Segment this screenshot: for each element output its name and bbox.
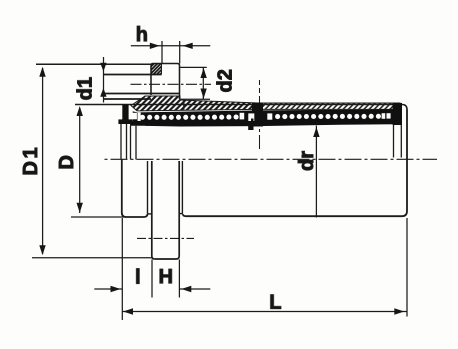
svg-text:l: l bbox=[135, 267, 141, 289]
bolt hole top extension line bbox=[36, 63, 151, 65]
white seal notches left bbox=[132, 113, 141, 122]
separator black patch bbox=[252, 103, 263, 127]
body right edge bbox=[402, 110, 407, 217]
L right extension line bbox=[406, 218, 408, 317]
dimension d2 bbox=[180, 67, 210, 99]
body bottom edge left of flange bbox=[122, 213, 148, 218]
main axis centerline bbox=[105, 158, 438, 160]
fillet jog right bbox=[179, 213, 183, 215]
dimension d1 bbox=[100, 57, 106, 103]
svg-text:D1: D1 bbox=[20, 145, 42, 176]
svg-text:L: L bbox=[269, 291, 281, 313]
flange lower local centerline bbox=[137, 237, 194, 239]
dimension dr bbox=[313, 126, 319, 218]
left end cap block bbox=[122, 104, 128, 120]
d2 extension lines bbox=[180, 67, 210, 99]
D1 bottom extension line bbox=[32, 257, 152, 259]
svg-text:h: h bbox=[136, 24, 148, 46]
vertical center mark dashed line bbox=[259, 80, 261, 150]
flange bottom edge bbox=[155, 256, 179, 259]
D extension line bottom bbox=[71, 216, 124, 218]
right end section wall lines bbox=[394, 125, 402, 158]
body left edge below axis bbox=[121, 159, 123, 213]
body bottom edge right of flange bbox=[183, 214, 402, 216]
svg-text:d2: d2 bbox=[215, 69, 237, 92]
separator black tick bbox=[251, 119, 254, 122]
hatched outer wall strip and flange wedge bbox=[131, 96, 258, 111]
separator white marks bbox=[240, 113, 273, 121]
bolt hole upper line d1 bbox=[104, 74, 162, 76]
flange hatch corner bbox=[151, 64, 162, 75]
bolt-hole axis centerline bbox=[131, 83, 212, 85]
svg-text:H: H bbox=[159, 266, 173, 288]
left slope of band bottom bbox=[130, 121, 148, 126]
outer wall strip right of separator bbox=[258, 103, 400, 109]
h extension lines bbox=[162, 41, 180, 64]
dimension L bbox=[122, 218, 407, 317]
left retainer ring section lines bbox=[131, 126, 137, 160]
fillet jog left bbox=[148, 213, 152, 215]
flange left face below axis bbox=[152, 161, 155, 259]
flange right face upper stub bbox=[183, 99, 185, 110]
body top edge bbox=[75, 105, 407, 110]
black ball track band bbox=[118, 103, 402, 127]
flange right face below axis bbox=[178, 161, 180, 256]
dimension D bbox=[77, 106, 83, 213]
flange fillet line right bbox=[181, 161, 183, 214]
dimension D1 bbox=[32, 67, 152, 258]
dimension l and H extension lines bbox=[94, 218, 210, 320]
right end cap block bbox=[393, 103, 402, 125]
svg-text:dr: dr bbox=[296, 151, 318, 171]
svg-text:d1: d1 bbox=[75, 77, 97, 100]
balls left group bbox=[140, 114, 239, 119]
counterbore lower line bbox=[104, 98, 152, 100]
separator lower tab bbox=[248, 125, 253, 130]
svg-text:D: D bbox=[56, 155, 78, 169]
l/H dimension line bbox=[94, 288, 122, 290]
flange top section outline bbox=[151, 64, 180, 100]
bolt hole lower line d1 bbox=[104, 93, 180, 95]
right seal white notches bbox=[382, 113, 391, 119]
left end section wall lines bbox=[121, 124, 127, 160]
dimension h bbox=[131, 41, 211, 64]
left end cap foot bbox=[118, 119, 132, 124]
flange fillet line left bbox=[147, 161, 149, 214]
balls right group bbox=[275, 114, 381, 119]
